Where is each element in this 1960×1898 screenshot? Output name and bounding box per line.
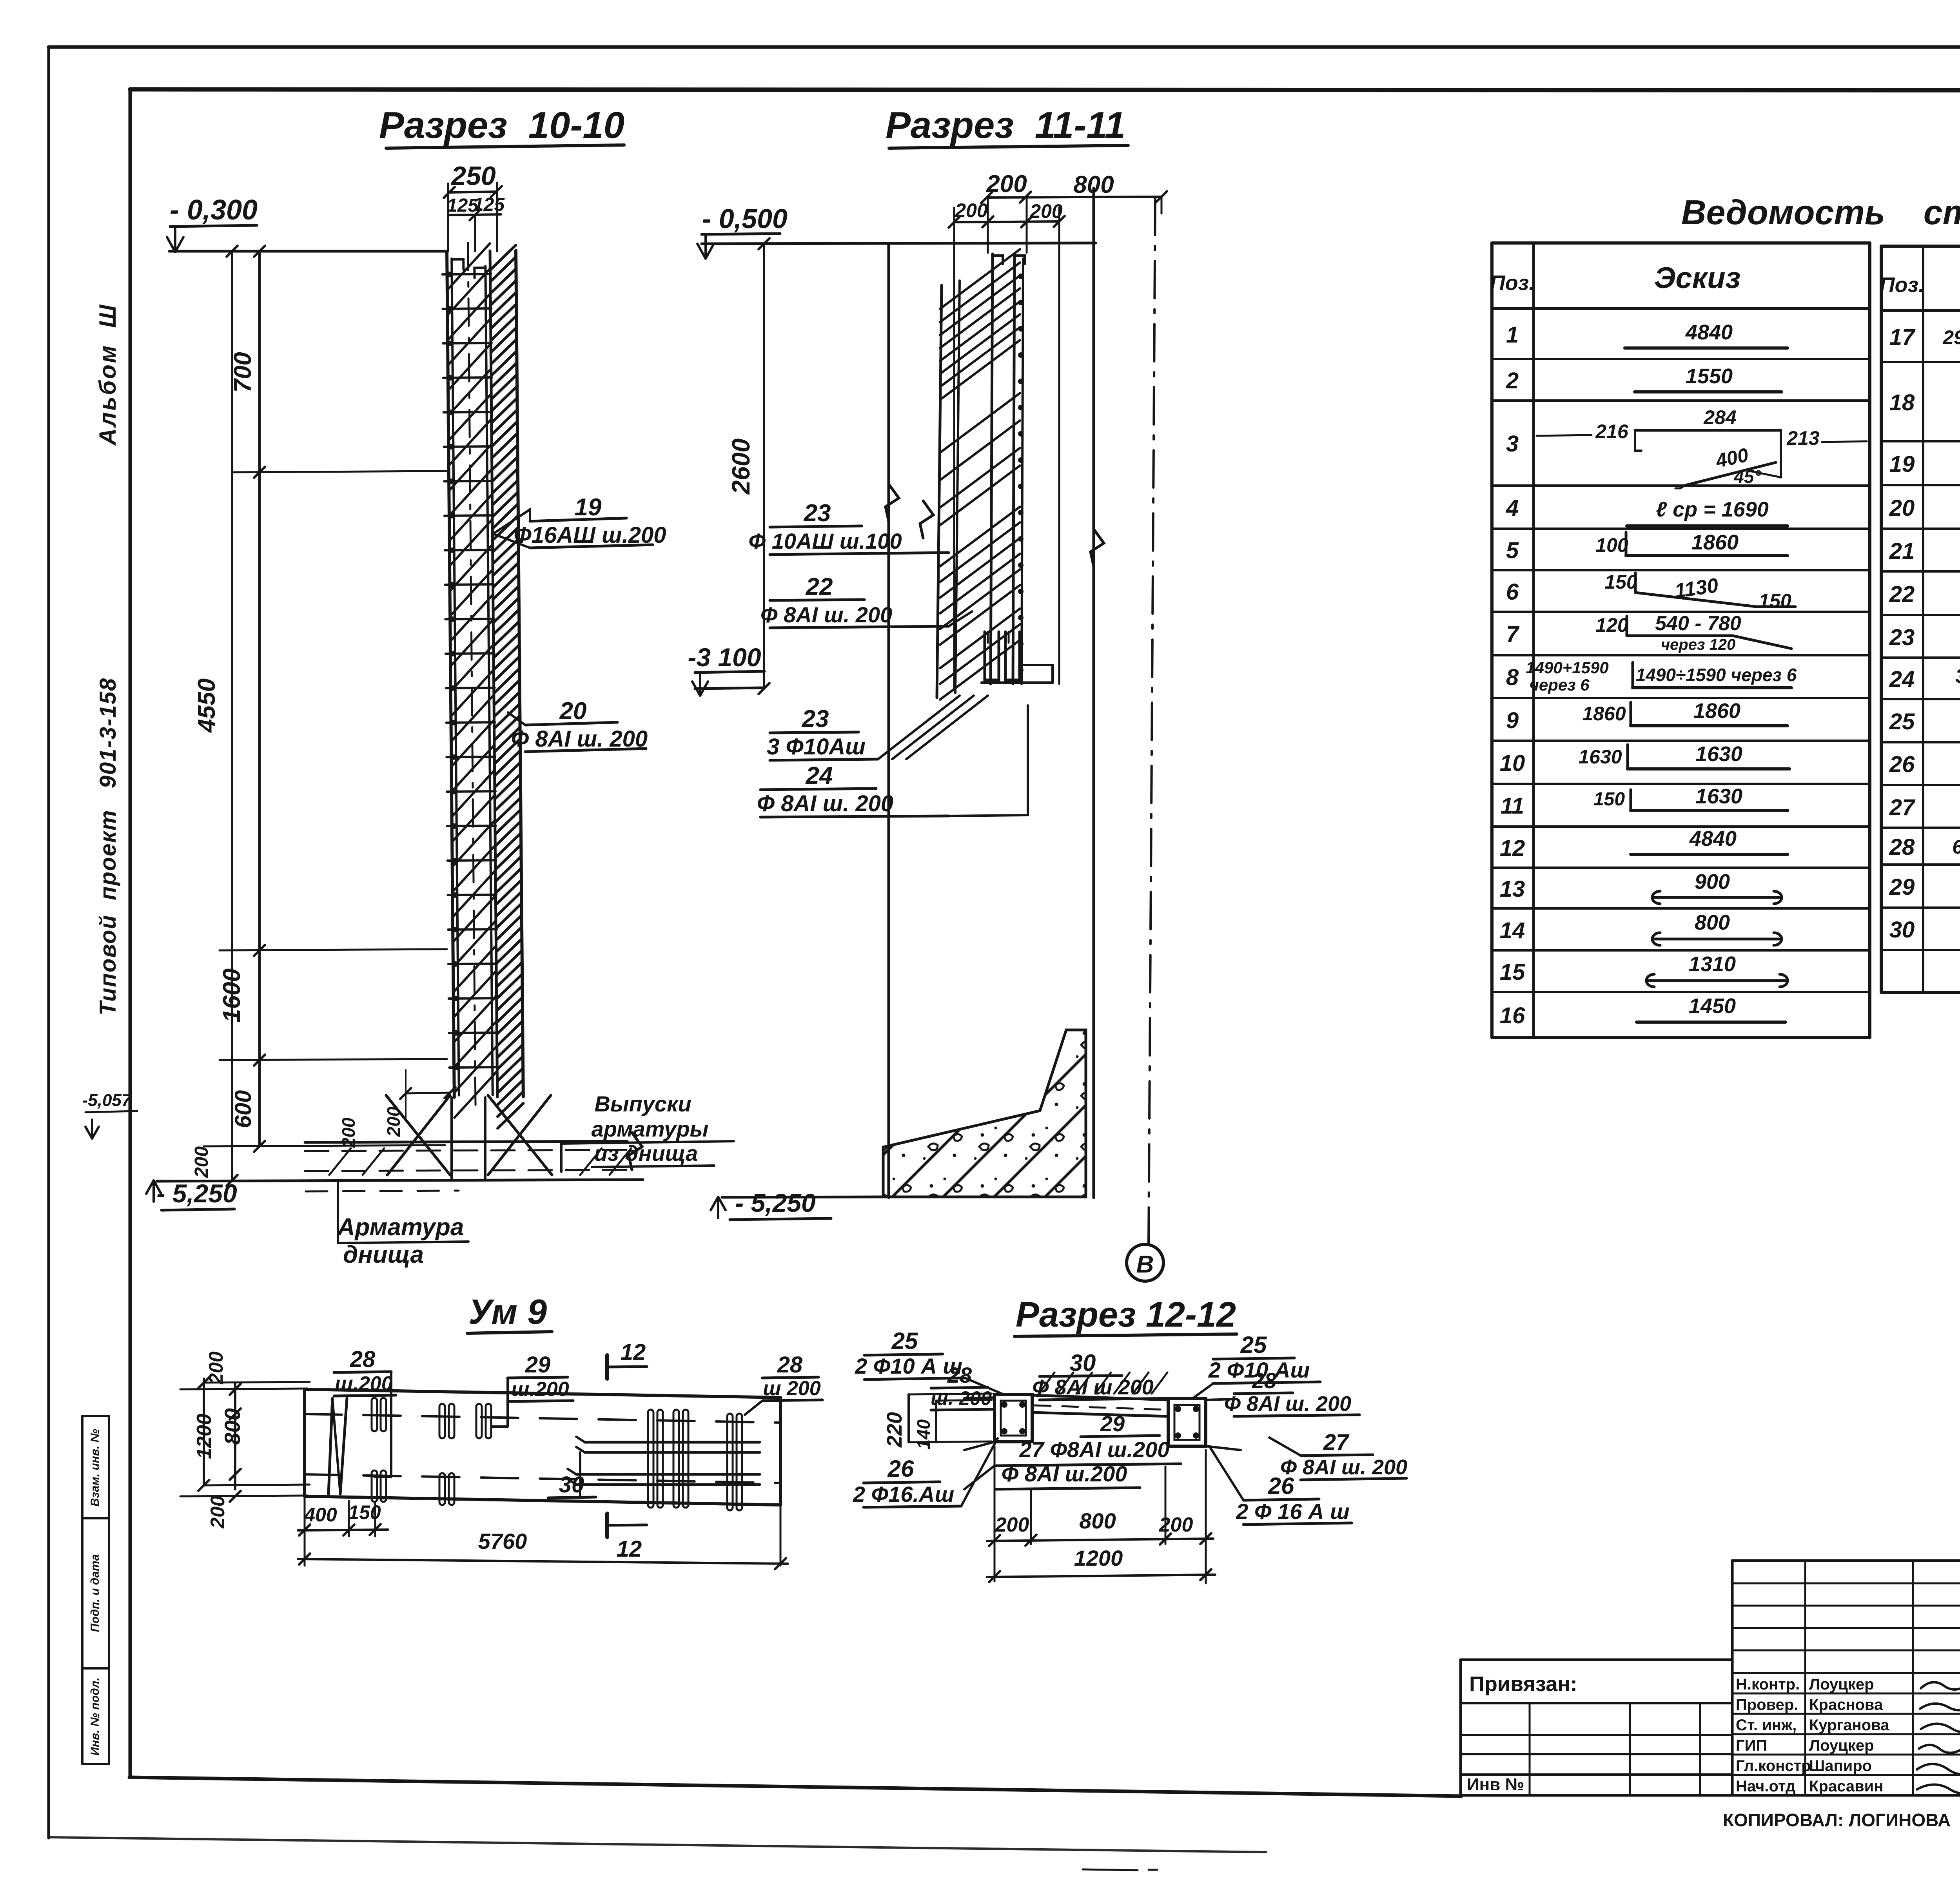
svg-text:20: 20 (1889, 495, 1915, 521)
svg-text:Краснова: Краснова (1809, 1696, 1883, 1713)
svg-text:4840: 4840 (1685, 321, 1733, 344)
level mark -0,500 (697, 203, 788, 259)
svg-text:Инв №: Инв № (1467, 1775, 1524, 1794)
ground hatch of section 11-11 (883, 1030, 1086, 1197)
svg-text:- 0,300: - 0,300 (170, 194, 258, 226)
Um9 section mark 12 bottom (607, 1514, 647, 1562)
svg-text:Н.контр.: Н.контр. (1736, 1676, 1800, 1693)
long boundary verticals of section 11-11 (886, 188, 1104, 1198)
svg-text:1: 1 (1506, 322, 1519, 348)
Ум 9 title (467, 1293, 552, 1333)
level mark -0,300 (167, 194, 258, 252)
section 12-12 title (1014, 1295, 1237, 1336)
svg-text:ш.200: ш.200 (335, 1372, 393, 1395)
svg-text:Подп. и дата: Подп. и дата (89, 1554, 102, 1632)
svg-text:10: 10 (1500, 750, 1525, 776)
svg-text:1630: 1630 (1695, 785, 1742, 808)
svg-text:Шапиро: Шапиро (1809, 1757, 1872, 1775)
svg-text:18: 18 (1889, 390, 1915, 415)
left table rows content (1500, 321, 1867, 1028)
svg-text:-5,057: -5,057 (82, 1091, 132, 1110)
svg-text:22: 22 (806, 573, 833, 600)
svg-text:200: 200 (338, 1117, 359, 1148)
svg-text:11: 11 (1501, 793, 1524, 819)
svg-text:1310: 1310 (1689, 952, 1736, 976)
section 12-12 label 28 ш.200 left (931, 1363, 993, 1410)
svg-text:8: 8 (1506, 665, 1519, 690)
svg-text:Разрез 10-10: Разрез 10-10 (379, 104, 624, 146)
svg-text:22: 22 (1889, 582, 1915, 607)
svg-text:250: 250 (450, 161, 496, 191)
svg-text:7: 7 (1506, 622, 1520, 647)
svg-text:- 5,250: - 5,250 (735, 1188, 816, 1217)
svg-text:13: 13 (1500, 876, 1525, 902)
section 12-12 label 28 Ф8АІ ш.200 right (1224, 1368, 1359, 1416)
left table grid (1492, 243, 1870, 1037)
svg-text:ℓ ср = 1690: ℓ ср = 1690 (1656, 498, 1769, 521)
svg-text:25: 25 (891, 1328, 918, 1354)
svg-text:29: 29 (525, 1352, 551, 1378)
level line top of wall 10-10 (169, 250, 448, 253)
section 12-12 label 30 Ф8АІ ш.200 (1032, 1350, 1175, 1400)
svg-text:- 5,250: - 5,250 (156, 1179, 237, 1208)
svg-text:1860: 1860 (1582, 703, 1626, 725)
svg-text:Ф 8АІ ш. 200: Ф 8АІ ш. 200 (1280, 1456, 1407, 1479)
svg-text:1860: 1860 (1693, 699, 1740, 723)
svg-text:200: 200 (207, 1496, 229, 1529)
svg-text:284: 284 (1703, 406, 1736, 428)
vertical dimension 2600 (727, 238, 769, 694)
svg-text:24: 24 (1889, 667, 1915, 692)
svg-text:Гл.констр: Гл.констр (1736, 1757, 1811, 1775)
svg-text:200: 200 (383, 1106, 404, 1137)
svg-text:213: 213 (1786, 427, 1820, 449)
svg-text:14: 14 (1500, 918, 1525, 943)
svg-text:150: 150 (348, 1501, 381, 1523)
svg-text:28: 28 (1889, 834, 1915, 860)
svg-text:6: 6 (1506, 579, 1519, 605)
svg-text:9: 9 (1506, 708, 1519, 733)
svg-text:25: 25 (1240, 1332, 1267, 1358)
svg-text:200: 200 (1159, 1514, 1193, 1536)
svg-text:1200: 1200 (1074, 1546, 1123, 1570)
section 12-12 label 26 2Ф16.АІІІ left (853, 1438, 998, 1507)
svg-text:1600: 1600 (218, 968, 245, 1022)
svg-text:Лоуцкер: Лоуцкер (1809, 1676, 1874, 1693)
svg-text:4550: 4550 (193, 678, 220, 733)
section 12-12 label 27 right (1269, 1430, 1407, 1480)
svg-text:17: 17 (1889, 324, 1916, 350)
section 11-11 title (886, 104, 1128, 148)
label 20 rebar mark (508, 698, 648, 752)
svg-text:Курганова: Курганова (1809, 1717, 1889, 1734)
svg-text:29: 29 (1100, 1411, 1125, 1436)
svg-text:днища: днища (343, 1241, 424, 1268)
svg-text:ГИП: ГИП (1736, 1737, 1767, 1754)
svg-text:Ф 8АІ ш. 200: Ф 8АІ ш. 200 (760, 602, 892, 627)
section 12-12 labels top right 25 2Ф10АІІІ (1192, 1332, 1320, 1399)
svg-text:Привязан:: Привязан: (1469, 1672, 1577, 1696)
svg-text:3: 3 (1506, 431, 1519, 457)
left dimension chain of section 10-10 (191, 246, 447, 1186)
Um9 bottom dimensions 400 150 5760 (298, 1496, 788, 1569)
svg-text:19: 19 (575, 494, 602, 521)
svg-text:через 120: через 120 (1661, 636, 1736, 653)
svg-text:1490÷1590 через 6: 1490÷1590 через 6 (1636, 665, 1797, 685)
svg-text:300: 300 (1955, 665, 1960, 687)
section 12-12 beam sections (964, 1372, 1241, 1450)
bottom slab of section 10-10 (157, 1095, 643, 1191)
svg-text:150: 150 (1593, 789, 1625, 810)
Um9 inner bars and stirrups (328, 1398, 760, 1510)
svg-text:150: 150 (1759, 590, 1791, 612)
svg-text:Красавин: Красавин (1809, 1778, 1883, 1795)
svg-text:2 Ф10 А ш: 2 Ф10 А ш (855, 1354, 962, 1378)
section 12-12 dims 220 140 (883, 1394, 992, 1449)
right table grid (1881, 246, 1960, 992)
svg-text:25: 25 (1889, 709, 1915, 734)
svg-text:Поз.: Поз. (1490, 271, 1535, 295)
svg-text:из днища: из днища (594, 1141, 698, 1166)
svg-text:Эскиз: Эскиз (1654, 261, 1741, 295)
label 23 3Ф10АІІІ below (767, 696, 988, 760)
top dimensions 200 800 of section 11-11 (949, 170, 1167, 690)
svg-text:5: 5 (1506, 538, 1519, 563)
svg-text:Арматура: Арматура (337, 1214, 464, 1241)
svg-text:Ф 8АІ ш.200: Ф 8АІ ш.200 (1002, 1461, 1127, 1486)
svg-text:Типовой проект 901-3-158: Типовой проект 901-3-158 (95, 678, 121, 1015)
svg-text:21: 21 (1889, 538, 1915, 564)
wall section 10-10 (monolithic strip with mesh) (442, 242, 524, 1129)
svg-text:1200: 1200 (193, 1414, 216, 1459)
svg-text:Провер.: Провер. (1736, 1696, 1798, 1713)
Um9 label 29 ш.200 (492, 1352, 573, 1427)
svg-text:-3 100: -3 100 (688, 643, 761, 672)
svg-text:800: 800 (1695, 911, 1730, 934)
section 12-12 labels top left 25 2Ф10АІІІ (855, 1328, 1004, 1394)
Um9 label 28 ш.200 left (334, 1347, 396, 1477)
svg-text:27 Ф8АІ ш.200: 27 Ф8АІ ш.200 (1019, 1437, 1169, 1462)
svg-text:60: 60 (1952, 836, 1960, 858)
svg-text:3 Ф10Аш: 3 Ф10Аш (767, 734, 866, 760)
svg-text:2 Ф16.Аш: 2 Ф16.Аш (853, 1482, 955, 1506)
svg-text:23: 23 (1889, 625, 1915, 650)
svg-text:100: 100 (1595, 534, 1628, 556)
svg-text:4: 4 (1506, 495, 1519, 521)
svg-text:- 0,500: - 0,500 (702, 203, 788, 234)
section 12-12 bottom dims 200 800 200 1200 (987, 1446, 1215, 1583)
label Арматура днища (337, 1182, 468, 1268)
level mark -5,250 left (146, 1179, 237, 1210)
svg-text:29: 29 (1889, 874, 1915, 900)
svg-text:27: 27 (1323, 1430, 1350, 1455)
svg-text:15: 15 (1500, 959, 1525, 985)
bottom hooks (U-bars) of wall 11-11 (982, 632, 1053, 683)
svg-text:ш. 200: ш. 200 (931, 1387, 992, 1409)
svg-text:200: 200 (191, 1146, 212, 1178)
label 22 Ф8АІ ш.200 (760, 573, 972, 628)
centre dash-dot line to node B (1149, 198, 1155, 1244)
svg-text:В: В (1136, 1251, 1154, 1278)
svg-text:5760: 5760 (478, 1529, 527, 1554)
svg-text:КОПИРОВАЛ: ЛОГИНОВА: КОПИРОВАЛ: ЛОГИНОВА (1723, 1810, 1951, 1830)
svg-text:400: 400 (304, 1504, 337, 1526)
svg-text:2: 2 (1506, 368, 1519, 393)
svg-text:800: 800 (220, 1408, 245, 1445)
svg-text:Ст. инж,: Ст. инж, (1736, 1717, 1797, 1734)
svg-text:ш 200: ш 200 (763, 1377, 821, 1400)
section 12-12 labels 29 / 27 / Ф8АІ centre (964, 1411, 1181, 1489)
section 10-10 title (379, 104, 624, 148)
level mark -5,050 small (82, 1091, 137, 1138)
svg-text:Альбом Ш: Альбом Ш (94, 303, 121, 446)
wall band of section 11-11 with inclined bars (937, 249, 1025, 700)
svg-text:20: 20 (559, 698, 587, 725)
svg-text:23: 23 (802, 705, 829, 732)
svg-text:4840: 4840 (1689, 827, 1737, 850)
svg-text:Ф 8АІ ш. 200: Ф 8АІ ш. 200 (1224, 1392, 1351, 1416)
svg-text:Ф 10АШ ш.100: Ф 10АШ ш.100 (748, 529, 902, 553)
svg-text:26: 26 (1889, 752, 1915, 777)
svg-text:140: 140 (913, 1419, 934, 1449)
svg-text:1550: 1550 (1686, 364, 1733, 388)
label 23 Ф10АІІІ ш.100 (748, 500, 949, 555)
dimension 250 above wall (444, 161, 505, 251)
section 12-12 label 26 2Ф16АІІІ right (1209, 1446, 1352, 1525)
svg-text:12: 12 (1500, 836, 1525, 861)
svg-text:540 - 780: 540 - 780 (1655, 612, 1741, 635)
svg-text:Выпуски: Выпуски (594, 1091, 691, 1116)
svg-text:Поз.: Поз. (1880, 273, 1924, 297)
svg-text:28: 28 (350, 1347, 376, 1372)
svg-text:27: 27 (1889, 795, 1916, 820)
svg-text:600: 600 (230, 1090, 256, 1128)
svg-text:216: 216 (1595, 421, 1629, 442)
svg-text:Ф 8АІ ш 200: Ф 8АІ ш 200 (1032, 1376, 1153, 1399)
svg-text:12: 12 (617, 1536, 642, 1562)
svg-text:290: 290 (1942, 326, 1960, 348)
svg-text:1630: 1630 (1578, 746, 1622, 768)
svg-text:19: 19 (1889, 451, 1915, 477)
left margin stamp boxes (82, 1416, 109, 1764)
level line top of section 11-11 (702, 243, 1096, 244)
title block: Привязан table (1461, 1660, 1732, 1795)
Um9 beam outline (305, 1389, 780, 1505)
svg-text:24: 24 (806, 762, 833, 789)
svg-text:200: 200 (995, 1514, 1029, 1536)
svg-text:30: 30 (1070, 1350, 1096, 1376)
svg-text:Нач.отд: Нач.отд (1736, 1778, 1795, 1795)
svg-text:2 Ф 16 А ш: 2 Ф 16 А ш (1236, 1499, 1350, 1524)
svg-text:16: 16 (1500, 1003, 1525, 1028)
svg-text:28: 28 (777, 1352, 803, 1378)
svg-text:1630: 1630 (1695, 742, 1742, 766)
node circle B (1127, 1244, 1163, 1281)
svg-text:200: 200 (205, 1351, 227, 1385)
small mark bottom centre (1083, 1869, 1138, 1870)
svg-text:30: 30 (1889, 917, 1915, 943)
dimension 200 at wall base (338, 1070, 456, 1148)
svg-text:Ум 9: Ум 9 (468, 1293, 547, 1332)
svg-text:2600: 2600 (727, 439, 755, 495)
svg-text:12: 12 (621, 1340, 646, 1365)
svg-text:700: 700 (229, 352, 256, 392)
svg-text:Лоуцкер: Лоуцкер (1809, 1737, 1874, 1754)
svg-text:200: 200 (1029, 200, 1063, 222)
svg-text:26: 26 (887, 1456, 914, 1482)
svg-text:150: 150 (1604, 571, 1637, 593)
Um9 label 30 (548, 1452, 596, 1498)
level mark -3,100 (688, 643, 764, 696)
label 19 rebar mark (493, 494, 666, 548)
svg-text:Инв. № подл.: Инв. № подл. (89, 1677, 102, 1755)
svg-text:28: 28 (947, 1363, 972, 1387)
svg-text:1490+1590: 1490+1590 (1526, 658, 1608, 677)
svg-text:1450: 1450 (1689, 994, 1736, 1018)
svg-text:арматуры: арматуры (592, 1117, 709, 1141)
svg-text:Ведомость стержней: Ведомость стержней (1681, 193, 1960, 232)
svg-text:800: 800 (1079, 1508, 1116, 1533)
level mark -5,250 right (711, 1188, 883, 1220)
label Выпуски арматуры из днища (561, 1091, 734, 1172)
svg-text:Разрез 12-12: Разрез 12-12 (1016, 1295, 1236, 1334)
svg-text:Разрез 11-11: Разрез 11-11 (886, 104, 1125, 146)
Um9 label 28 ш.200 right (745, 1352, 822, 1415)
label 24 Ф8АІ ш.200 (757, 705, 1028, 817)
svg-text:28: 28 (1252, 1368, 1277, 1393)
svg-text:Взам. инв. №: Взам. инв. № (89, 1429, 102, 1506)
Um9 left dimensions 200 800 200 1200 (180, 1351, 310, 1529)
svg-text:220: 220 (883, 1412, 906, 1448)
right table rows content (1889, 317, 1960, 945)
svg-text:23: 23 (804, 500, 831, 527)
Um9 section mark 12 top (607, 1340, 647, 1379)
svg-text:120: 120 (1595, 614, 1628, 636)
svg-text:1860: 1860 (1691, 531, 1739, 554)
svg-text:ш.200: ш.200 (511, 1378, 569, 1401)
svg-text:26: 26 (1268, 1473, 1294, 1499)
svg-text:900: 900 (1695, 870, 1730, 894)
title block: signature table (1732, 1561, 1960, 1795)
svg-text:Ф 8АІ ш. 200: Ф 8АІ ш. 200 (757, 791, 893, 816)
svg-text:через 6: через 6 (1529, 676, 1590, 694)
